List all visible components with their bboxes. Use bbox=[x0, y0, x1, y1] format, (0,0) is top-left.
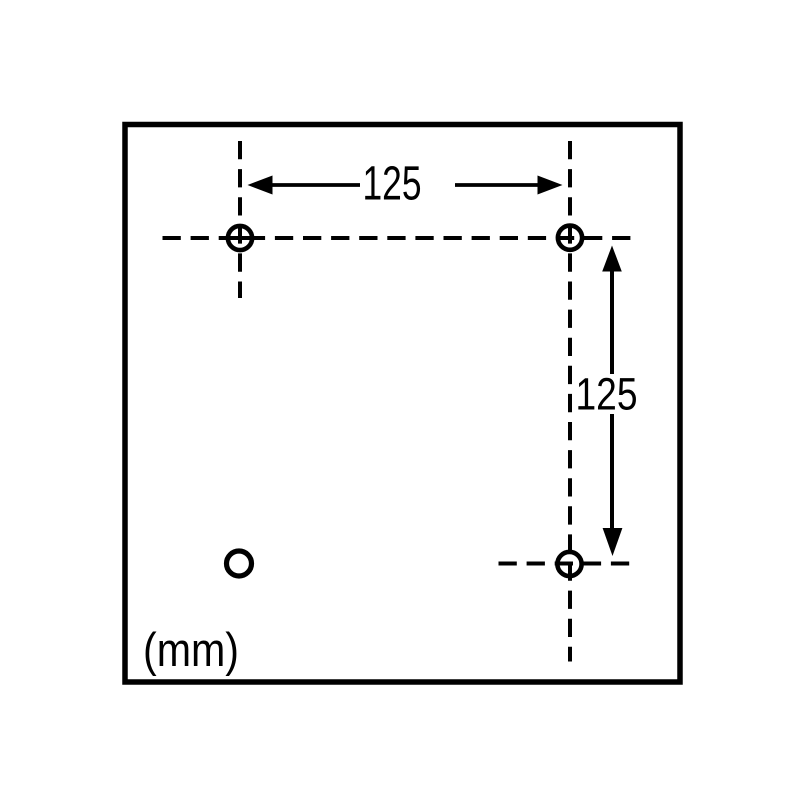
wire patch through upper-left hole (solid center-line segment) bbox=[226, 236, 253, 240]
hole upper-left bbox=[228, 226, 252, 250]
hole lower-right bbox=[557, 552, 581, 576]
hole upper-right bbox=[558, 226, 582, 250]
center line H1 (horizontal dashed through upper holes) bbox=[163, 236, 631, 240]
panel outline (square plate) bbox=[125, 125, 680, 683]
dimension arrow up (points up) bbox=[602, 246, 622, 375]
center line V1 (vertical dashed through upper-left hole) bbox=[238, 141, 242, 298]
hole lower-left (plain) bbox=[227, 551, 252, 576]
svg-text:125: 125 bbox=[363, 158, 422, 211]
svg-text:125: 125 bbox=[576, 369, 638, 420]
dimension arrow left (points left) bbox=[248, 176, 361, 195]
center line V2 (vertical dashed through right holes) bbox=[568, 141, 572, 662]
center line H2 (horizontal dashed through lower-right hole) bbox=[499, 562, 632, 566]
svg-text:(mm): (mm) bbox=[143, 623, 239, 676]
dimension arrow right (points right) bbox=[455, 176, 563, 195]
dimension arrow down (points down) bbox=[603, 414, 623, 556]
